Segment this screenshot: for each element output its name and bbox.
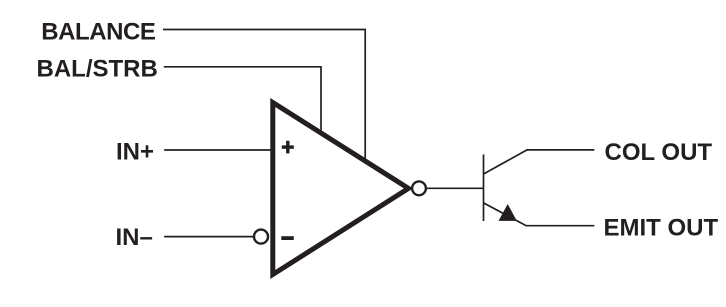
svg-text:EMIT OUT: EMIT OUT: [604, 214, 719, 241]
svg-text:IN–: IN–: [116, 224, 153, 251]
svg-text:COL OUT: COL OUT: [605, 139, 713, 166]
svg-text:BALANCE: BALANCE: [41, 19, 156, 46]
svg-text:BAL/STRB: BAL/STRB: [37, 56, 158, 83]
svg-text:IN+: IN+: [116, 139, 154, 166]
